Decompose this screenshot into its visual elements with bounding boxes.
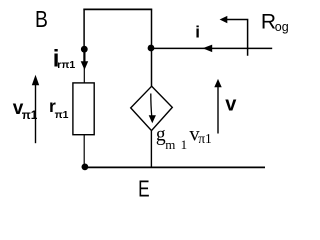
svg-text:π1: π1 bbox=[22, 108, 38, 122]
bent arrow head bbox=[220, 16, 228, 23]
svg-text:og: og bbox=[275, 20, 289, 34]
node junction dot bottom (emitter node) bbox=[82, 164, 89, 171]
svg-text:1: 1 bbox=[181, 137, 188, 152]
svg-text:rπ1: rπ1 bbox=[57, 59, 75, 71]
bent arrow into R_og bbox=[227, 20, 248, 56]
node junction dot left (base node) bbox=[81, 46, 88, 53]
v_pi1 measurement arrow head bbox=[32, 75, 39, 86]
wire arrow tip to resistor top bbox=[83, 68, 85, 83]
current arrow i_rpi1 head bbox=[81, 61, 89, 70]
svg-text:i: i bbox=[195, 22, 200, 41]
wire bottom rail E bbox=[85, 166, 265, 168]
wire right vertical from top rail to output node bbox=[151, 9, 153, 48]
svg-text:E: E bbox=[138, 176, 150, 202]
node junction dot output bbox=[148, 45, 155, 52]
arrowhead current i on output wire bbox=[203, 45, 213, 53]
wire source bottom to emitter rail bbox=[150, 131, 152, 168]
svg-text:π1: π1 bbox=[198, 131, 212, 146]
svg-text:B: B bbox=[35, 6, 48, 32]
svg-text:π1: π1 bbox=[55, 109, 69, 121]
svg-text:m: m bbox=[165, 137, 175, 152]
v measurement arrow head bbox=[214, 79, 221, 87]
dependent source internal arrow head bbox=[149, 115, 156, 123]
svg-text:v: v bbox=[225, 94, 237, 116]
dependent current source gm1*vpi1 diamond bbox=[131, 86, 173, 130]
wire top rail B to collector branch bbox=[83, 8, 152, 10]
current arrow i_rpi1 shaft bbox=[83, 51, 85, 62]
dependent source internal arrow shaft bbox=[151, 94, 152, 118]
wire output node down to source top bbox=[151, 48, 153, 87]
wire resistor bottom to emitter rail bbox=[83, 135, 85, 164]
wire main output horizontal bbox=[151, 47, 272, 49]
wire left vertical from top rail down to node bbox=[83, 9, 85, 49]
resistor r_pi1 body bbox=[73, 83, 94, 135]
svg-text:R: R bbox=[261, 10, 276, 33]
v_pi1 measurement arrow shaft bbox=[35, 84, 37, 143]
v measurement arrow shaft bbox=[217, 86, 219, 134]
